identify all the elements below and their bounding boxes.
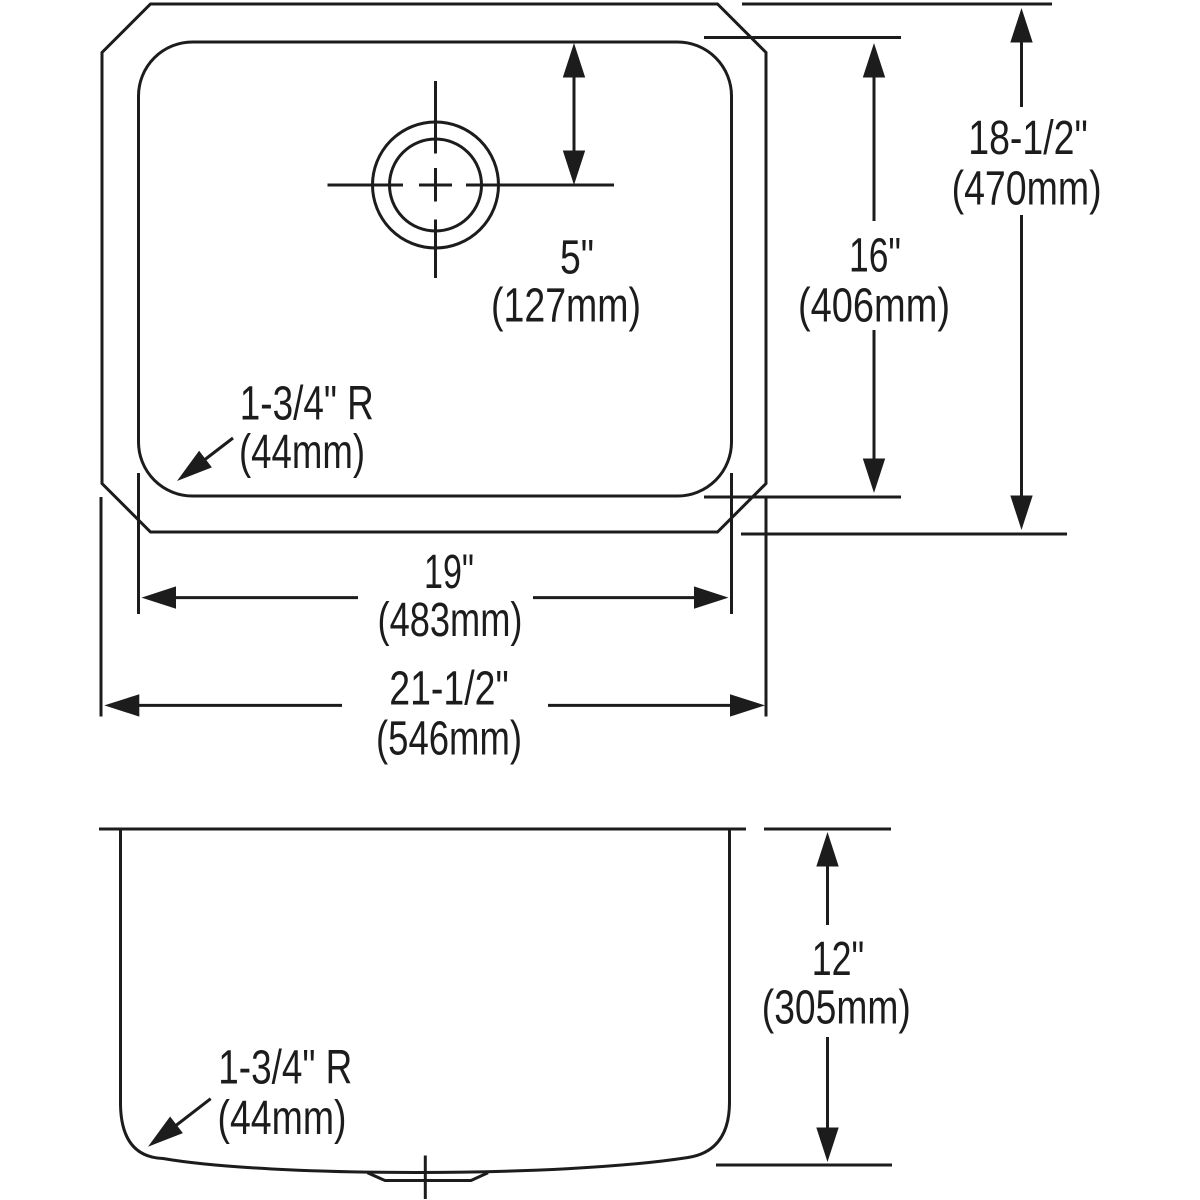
extension line 19in left	[137, 473, 140, 614]
svg-text:18-1/2": 18-1/2"	[968, 112, 1088, 165]
extension line 18-1/2in bottom	[741, 533, 1067, 536]
svg-text:19": 19"	[424, 546, 474, 599]
svg-text:12": 12"	[812, 933, 865, 986]
svg-text:(44mm): (44mm)	[239, 426, 365, 479]
leader arrow for corner radius (side view)	[148, 1099, 211, 1147]
sink bowl (top view, rounded rectangle)	[139, 42, 732, 496]
drain crosshair horizontal	[328, 184, 615, 187]
extension line 21-1/2in left	[100, 497, 103, 717]
extension line 12in top	[764, 828, 891, 831]
svg-text:(483mm): (483mm)	[378, 594, 523, 647]
side view counter top line	[99, 828, 746, 831]
svg-text:(470mm): (470mm)	[952, 163, 1102, 216]
side view bowl outline	[121, 829, 730, 1172]
dimension 21-1/2in arrow line	[104, 694, 765, 716]
dimension 5in arrow line	[563, 43, 585, 185]
dimension 16in arrow line	[863, 43, 885, 493]
extension line 19in right	[730, 473, 733, 614]
svg-text:(44mm): (44mm)	[218, 1092, 347, 1145]
svg-text:(127mm): (127mm)	[491, 280, 641, 333]
extension line 18-1/2in top	[742, 3, 1052, 6]
extension line 12in bottom	[716, 1164, 892, 1167]
svg-text:(546mm): (546mm)	[376, 713, 522, 766]
svg-text:21-1/2": 21-1/2"	[389, 663, 509, 716]
dimension 19in arrow line	[142, 586, 729, 608]
drain centerline (side view)	[424, 1156, 427, 1200]
dimension 18-1/2in arrow line	[1010, 8, 1032, 530]
extension line 21-1/2in right	[765, 497, 768, 717]
drain crosshair vertical	[434, 81, 437, 278]
svg-text:1-3/4" R: 1-3/4" R	[240, 378, 374, 431]
sink outer rim (top view, chamfered rectangle)	[102, 4, 766, 532]
drain inner circle	[390, 139, 482, 231]
svg-text:1-3/4" R: 1-3/4" R	[218, 1042, 352, 1095]
extension line 16in top	[704, 36, 901, 39]
drain outer circle	[373, 122, 499, 248]
svg-text:(305mm): (305mm)	[762, 981, 911, 1034]
svg-text:16": 16"	[849, 230, 901, 283]
svg-text:5": 5"	[560, 232, 594, 285]
drain stub (side view trapezoid)	[368, 1173, 489, 1181]
leader arrow for corner radius (top view)	[177, 438, 233, 481]
dimension 12in arrow line	[816, 832, 838, 1162]
extension line 16in bottom	[704, 496, 901, 499]
svg-text:(406mm): (406mm)	[798, 280, 950, 333]
